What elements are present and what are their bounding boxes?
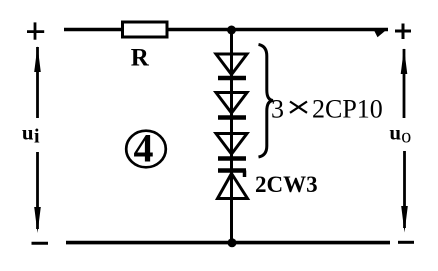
plus terminal top-right [395,24,411,40]
wire bottom horizontal [66,241,390,245]
circled number 4 [126,126,166,171]
diode D2 2CP10 [216,93,247,118]
ui reference arrow lower segment [34,152,41,233]
node bottom junction [228,238,237,247]
svg-text:3: 3 [271,94,284,123]
label uo [389,120,411,147]
diode D1 2CP10 [216,54,247,78]
svg-text:4: 4 [134,126,154,171]
svg-text:2CW3: 2CW3 [255,172,318,197]
svg-text:i: i [34,126,40,148]
node top junction [227,26,236,35]
svg-text:o: o [401,126,411,148]
resistor R [123,22,168,72]
brace for 3x2CP10 group [259,45,274,158]
svg-text:u: u [389,120,401,144]
minus terminal bottom-left [32,242,49,245]
diode D3 2CP10 [216,134,247,159]
uo reference arrow upper segment [401,48,408,118]
ui reference arrow upper segment [34,46,41,118]
label 3x2CP10 [271,94,383,123]
svg-text:2CP10: 2CP10 [312,94,383,123]
minus terminal bottom-right [398,241,414,244]
arrowhead at right end of top wire [374,30,387,37]
uo reference arrow lower segment [401,151,408,233]
zener diode 2CW3 [218,171,248,199]
plus terminal top-left [27,22,44,39]
wire top horizontal [64,28,388,32]
label ui [22,120,40,147]
wire diode branch vertical [230,30,233,243]
svg-text:u: u [22,120,34,144]
svg-text:R: R [131,45,150,72]
